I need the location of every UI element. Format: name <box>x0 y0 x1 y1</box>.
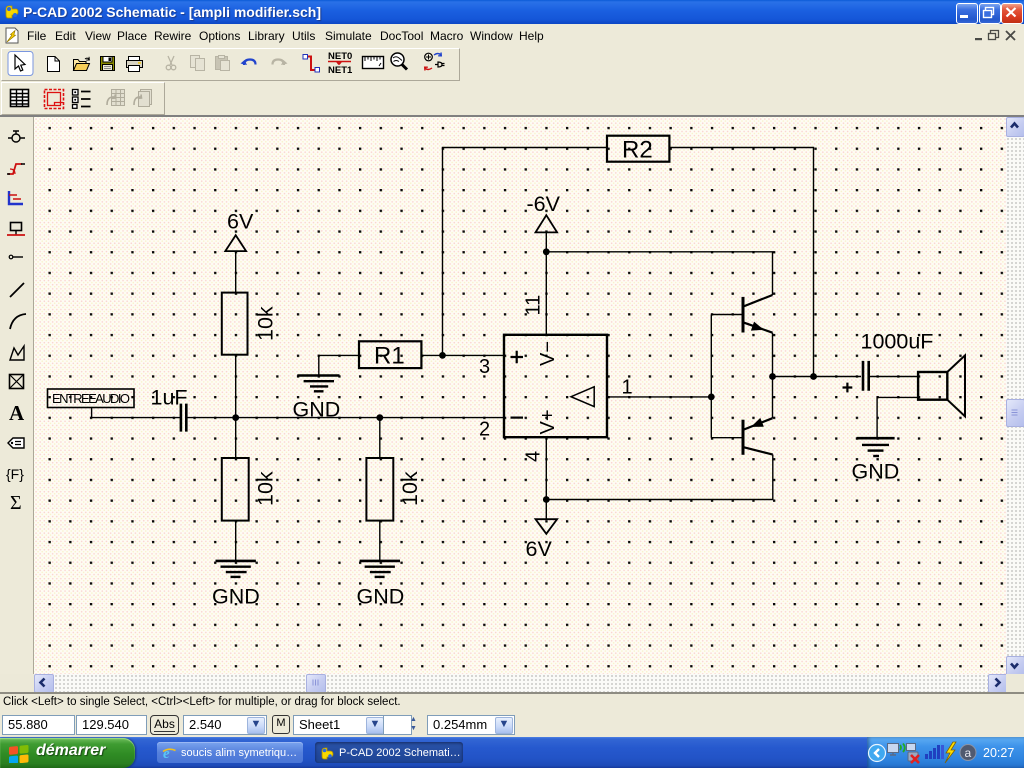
sheets/table icon <box>11 90 29 108</box>
svg-text:GND: GND <box>357 585 405 609</box>
ground GND3 (at R1) <box>297 374 339 377</box>
transistor Q1 <box>742 297 745 333</box>
resistor R2 <box>607 136 669 162</box>
resistor 10k lower-right R4 <box>366 458 393 521</box>
block select icon (red) <box>45 90 64 109</box>
wire output node to capacitor <box>773 376 862 378</box>
resistor R1 <box>359 341 421 368</box>
schematic canvas <box>34 117 1006 674</box>
svg-text:GND: GND <box>212 585 260 609</box>
cut (disabled) <box>166 56 176 70</box>
svg-text:GND: GND <box>293 398 341 422</box>
save <box>101 57 115 71</box>
menu bar <box>0 24 1024 48</box>
toolbar row 1 <box>0 47 1024 82</box>
wire Q1 base <box>711 314 741 316</box>
ground GND2 <box>360 560 400 563</box>
ERC tool <box>425 53 445 71</box>
wire R1 left to ground stem <box>319 355 359 374</box>
print <box>127 57 143 72</box>
wire Q2 collector down <box>546 455 773 500</box>
palette: place bus <box>9 191 23 204</box>
op-amp triangle mark <box>571 387 594 407</box>
node junction -6V branch <box>543 248 550 255</box>
ground GND1 <box>216 560 256 563</box>
node junction pin4/collector return <box>543 496 550 503</box>
horizontal scrollbar <box>34 674 1006 692</box>
wire op-amp output pin 1 <box>607 396 711 398</box>
port ENTREEAUDIO <box>48 389 135 408</box>
palette: place wire <box>7 164 25 174</box>
toolbar row 2 <box>0 82 1024 116</box>
left tool palette <box>0 117 34 674</box>
node junction R4 top <box>376 414 383 421</box>
ruler <box>363 57 384 69</box>
disabled icon 2 <box>134 90 152 107</box>
op-amp plus (pin 3) <box>511 351 524 364</box>
svg-text:11: 11 <box>523 295 545 316</box>
palette: place part <box>8 131 25 142</box>
svg-text:6V: 6V <box>526 537 553 561</box>
palette: place port <box>7 223 25 236</box>
wire 6V to upper resistor <box>235 251 237 293</box>
svg-text:10k: 10k <box>254 306 278 341</box>
svg-text:R2: R2 <box>622 137 653 164</box>
canvas separator <box>0 115 1024 117</box>
wire Q1 emitter to output node <box>772 333 774 377</box>
copy (disabled) <box>191 56 205 71</box>
wire base rail vertical <box>710 315 712 438</box>
wire input port stub <box>92 408 180 418</box>
palette: place ref point <box>10 375 24 389</box>
disabled icon 1 <box>107 90 125 106</box>
power 6V bottom symbol <box>536 519 558 534</box>
op-amp U1 body <box>504 335 607 437</box>
taskbar <box>0 737 1024 768</box>
zoom <box>391 53 407 70</box>
wire Q2 base <box>711 437 741 439</box>
speaker LS1 <box>918 372 947 400</box>
power -6V symbol <box>536 215 558 232</box>
wire R4 to ground <box>379 521 381 561</box>
palette: place pin <box>9 255 23 259</box>
svg-text:A: A <box>9 401 25 425</box>
capacitor C1 1uF <box>181 404 186 432</box>
svg-text:R1: R1 <box>374 343 405 370</box>
NET0 NET1 tool <box>328 51 353 76</box>
svg-text:{F}: {F} <box>6 466 24 482</box>
polarity plus C2 <box>843 383 853 393</box>
transistor Q2 <box>742 420 745 455</box>
svg-text:e: e <box>163 746 170 761</box>
wire input to op-amp pin 2 <box>188 417 505 419</box>
svg-text:10k: 10k <box>254 471 278 506</box>
wire capacitor to speaker <box>870 376 918 378</box>
svg-text:6V: 6V <box>227 210 254 234</box>
svg-text:GND: GND <box>852 460 900 484</box>
title bar <box>0 0 1024 24</box>
resistor 10k upper <box>222 293 248 355</box>
wire input node to lower resistor <box>235 418 237 458</box>
wire output node to Q2 emitter <box>772 377 774 419</box>
list/BOM icon <box>73 90 91 109</box>
svg-text:a: a <box>965 746 972 760</box>
svg-text:NET0: NET0 <box>328 51 352 62</box>
palette: place arc <box>10 314 26 329</box>
svg-text:10k: 10k <box>398 471 422 506</box>
vertical scrollbar <box>1006 117 1024 674</box>
prompt line <box>0 692 1024 710</box>
node junction feedback/pin3 <box>439 352 446 359</box>
palette: place attribute <box>8 438 24 448</box>
svg-text:1000uF: 1000uF <box>861 330 934 354</box>
wire -6V rail to op-amp pin 11 <box>545 232 547 334</box>
wire upper resistor to input node <box>235 355 237 418</box>
net wire tool <box>303 55 320 73</box>
wire divider node to R4 <box>379 418 381 458</box>
svg-text:Σ: Σ <box>10 492 22 514</box>
open <box>74 57 90 71</box>
node output junction 2 <box>810 373 817 380</box>
wire -6V branch to Q1 collector <box>546 252 772 295</box>
ground GND4 <box>857 437 895 440</box>
node junction input/divider <box>232 414 239 421</box>
wire R1 right to pin 3 <box>421 354 504 356</box>
svg-text:1: 1 <box>622 377 633 399</box>
palette: place polygon <box>10 346 24 360</box>
wire feedback left vertical <box>443 148 608 356</box>
paste (disabled) <box>216 56 230 71</box>
undo <box>244 60 256 66</box>
svg-text:-6V: -6V <box>527 192 561 216</box>
svg-text:NET1: NET1 <box>328 65 353 76</box>
svg-text:2: 2 <box>479 419 490 441</box>
op-amp minus (pin 2) <box>511 417 524 419</box>
wire feedback right to output <box>669 148 813 377</box>
svg-text:V+: V+ <box>537 409 559 434</box>
svg-text:4: 4 <box>523 451 545 462</box>
wire speaker to ground <box>877 397 918 437</box>
palette: place line <box>10 283 24 297</box>
svg-text:ENTREEAUDIO: ENTREEAUDIO <box>52 391 130 406</box>
status bar <box>0 710 1024 737</box>
node junction base rail <box>708 394 715 401</box>
power +6V top symbol <box>225 235 246 251</box>
wire op-amp pin 4 down <box>545 437 547 519</box>
select arrow button <box>8 52 33 76</box>
redo (disabled) <box>273 60 285 66</box>
svg-text:V−: V− <box>537 341 559 366</box>
svg-text:3: 3 <box>479 356 490 378</box>
svg-text:1uF: 1uF <box>151 386 188 410</box>
wire lower-left resistor to ground <box>235 521 237 561</box>
capacitor C2 1000uF <box>863 361 869 391</box>
resistor 10k lower-left <box>222 458 249 521</box>
new <box>48 57 60 72</box>
node output junction 1 <box>769 373 776 380</box>
